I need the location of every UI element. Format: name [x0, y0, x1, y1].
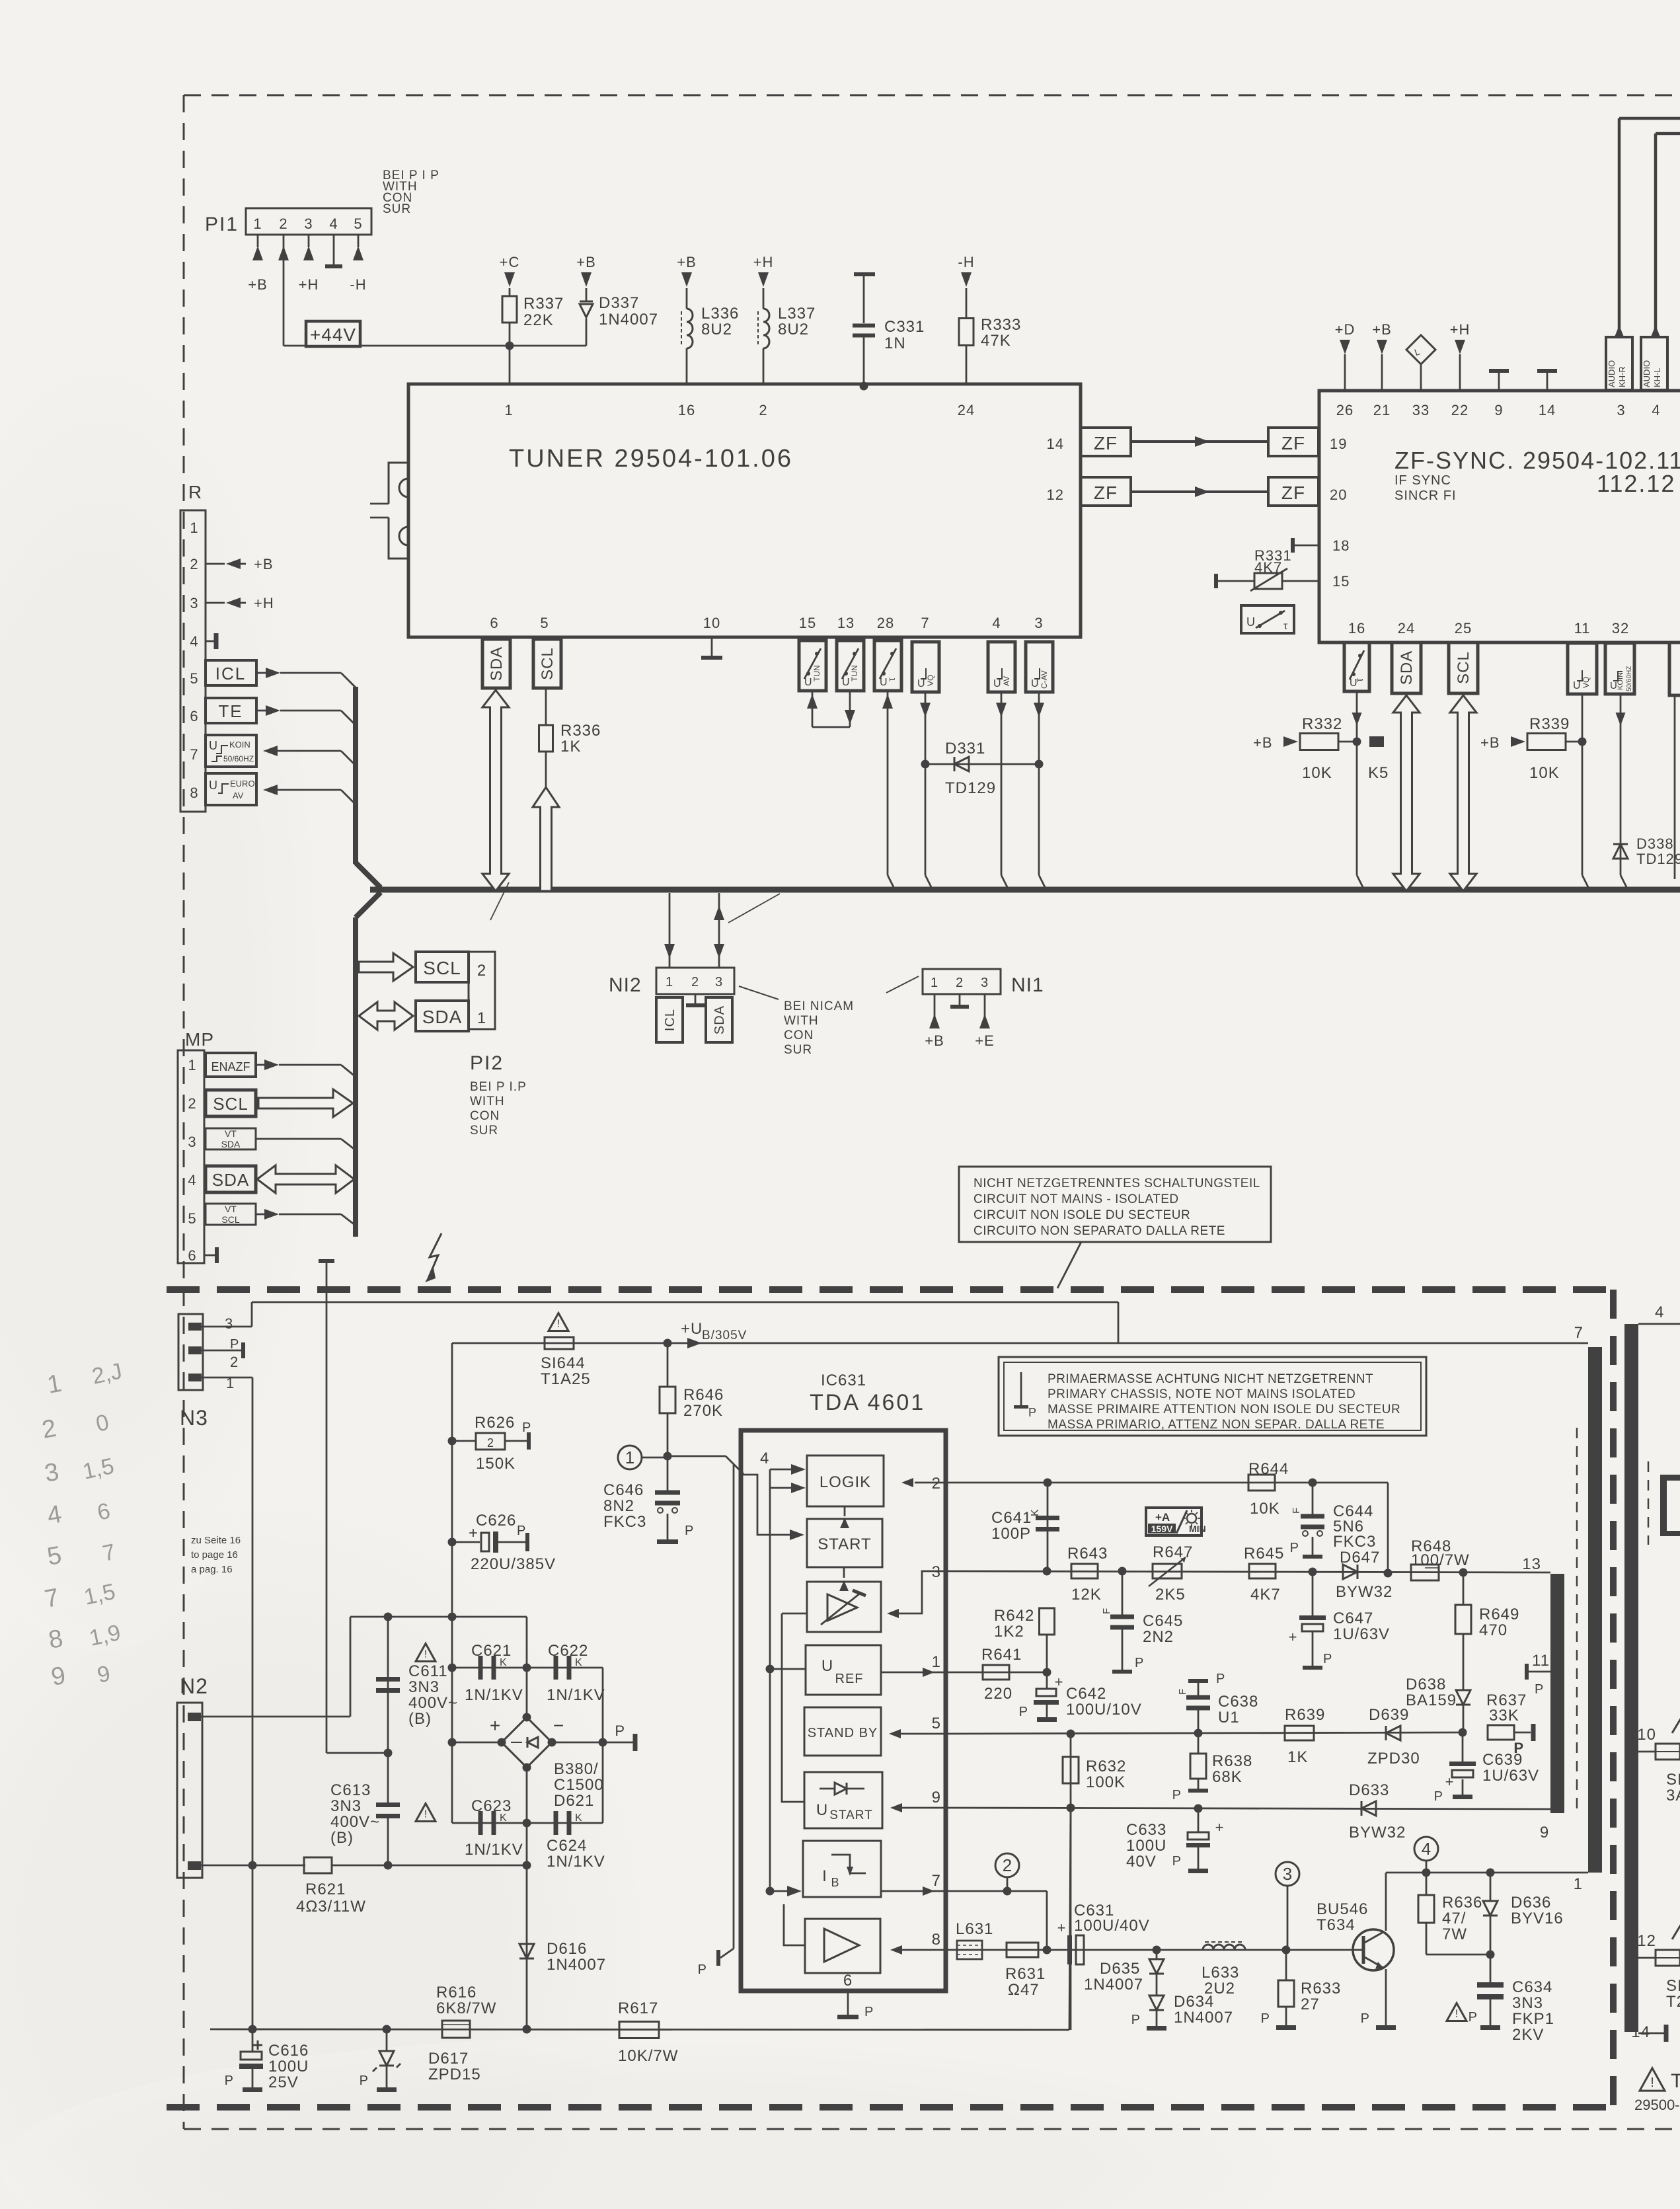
svg-text:+H: +H	[753, 254, 774, 270]
resistor R636	[1418, 1873, 1490, 1955]
svg-text:ICL: ICL	[215, 664, 246, 683]
svg-text:R617: R617	[618, 1999, 658, 2017]
svg-text:1: 1	[932, 1653, 941, 1671]
R pin3 +H	[206, 595, 274, 611]
TDA pin2	[901, 1475, 946, 1492]
signal box SDA zfsync	[1392, 642, 1421, 693]
transistor collector wire	[1385, 1873, 1387, 1931]
svg-text:NI2: NI2	[609, 974, 642, 996]
svg-text:1N4007: 1N4007	[1174, 2009, 1233, 2027]
signal box ICL	[206, 660, 256, 685]
svg-text:MP: MP	[185, 1029, 214, 1050]
ZF box tuner pin14	[1081, 428, 1131, 456]
resistor R331	[1214, 547, 1319, 591]
bus arrow to SCL PI2	[359, 953, 413, 981]
NI1 pin1 +B	[925, 994, 944, 1049]
svg-text:P: P	[522, 1420, 531, 1435]
svg-text:P: P	[1019, 1705, 1028, 1719]
svg-text:3: 3	[1034, 615, 1043, 631]
svg-text:3: 3	[190, 595, 198, 611]
svg-text:P: P	[685, 1524, 694, 1538]
svg-text:R636: R636	[1442, 1894, 1482, 1912]
svg-text:1N/1KV: 1N/1KV	[465, 1841, 523, 1859]
svg-text:T634: T634	[1317, 1916, 1355, 1934]
bus arrow SDA MP	[257, 1165, 354, 1193]
svg-text:3: 3	[225, 1315, 233, 1332]
winding pin11 stub	[1525, 1652, 1550, 1697]
isolation dashed line left	[1576, 1428, 1578, 1814]
svg-text:8: 8	[932, 1931, 941, 1949]
svg-text:B: B	[831, 1876, 839, 1889]
signal box U-EURO-AV	[206, 773, 258, 805]
svg-text:22: 22	[1451, 402, 1469, 418]
resistor R336	[539, 689, 601, 789]
signal box SDA PI2	[416, 1001, 469, 1031]
diode D331	[925, 740, 1039, 797]
svg-text:+D: +D	[1335, 321, 1355, 338]
svg-text:R639: R639	[1285, 1706, 1325, 1724]
svg-text:6: 6	[843, 1972, 853, 1990]
svg-text:1U/63V: 1U/63V	[1333, 1625, 1390, 1643]
zfsync pin18 stub	[1291, 538, 1319, 553]
svg-text:+B: +B	[248, 276, 268, 293]
svg-text:100U/10V: 100U/10V	[1066, 1701, 1142, 1719]
svg-text:14: 14	[1047, 436, 1064, 452]
svg-text:12K: 12K	[1071, 1586, 1102, 1604]
svg-text:C645: C645	[1143, 1612, 1183, 1630]
diode D634	[1131, 1974, 1233, 2031]
svg-text:a pag. 16: a pag. 16	[191, 1564, 233, 1575]
resistor R337	[500, 254, 564, 346]
winding pin14 stub	[1631, 2023, 1668, 2042]
svg-text:R646: R646	[683, 1386, 724, 1404]
signal box U-tau pin28	[874, 640, 901, 691]
svg-text:+44V: +44V	[310, 325, 356, 345]
svg-text:3: 3	[715, 975, 723, 989]
transformer winding bar 7-1	[1588, 1347, 1602, 1873]
svg-text:KH-L: KH-L	[1652, 368, 1662, 387]
svg-text:2: 2	[230, 1354, 239, 1370]
resistor R632	[1063, 1734, 1126, 2030]
svg-text:33: 33	[1412, 402, 1430, 418]
svg-text:4: 4	[329, 215, 338, 232]
TDA pin9	[890, 1789, 946, 1812]
svg-text:K: K	[500, 1657, 507, 1668]
svg-text:+B: +B	[1480, 734, 1500, 751]
bottom row wire	[210, 1808, 1069, 2034]
svg-text:WITH: WITH	[470, 1095, 505, 1108]
svg-text:10: 10	[703, 615, 720, 631]
wire pin3 to bus	[1034, 692, 1046, 890]
svg-text:3N3: 3N3	[1512, 1994, 1543, 2012]
wire ICL to bus line	[256, 668, 356, 687]
svg-text:ZPD15: ZPD15	[428, 2066, 481, 2083]
svg-text:R649: R649	[1479, 1606, 1519, 1623]
resistor R626	[448, 1414, 532, 1473]
svg-text:25: 25	[1455, 620, 1472, 637]
svg-text:3: 3	[188, 1134, 196, 1150]
capacitor C616	[225, 2029, 309, 2092]
capacitor C644	[1290, 1483, 1377, 1559]
svg-text:SINCR FI: SINCR FI	[1394, 488, 1457, 503]
svg-text:N2: N2	[180, 1674, 208, 1698]
wire N3 pin3 to supply row	[202, 1302, 1118, 1343]
svg-text:LOGIK: LOGIK	[820, 1473, 871, 1491]
svg-text:4: 4	[1652, 402, 1660, 418]
resistor R333	[958, 254, 1021, 384]
svg-text:U: U	[209, 739, 217, 752]
signal box SCL PI2	[416, 952, 469, 982]
wire bridge right to ground	[552, 1723, 638, 1751]
svg-text:D616: D616	[547, 1940, 587, 1958]
signal box SDA MP	[206, 1166, 256, 1192]
wire col530	[350, 1617, 352, 1717]
svg-text:-H: -H	[958, 254, 974, 270]
svg-text:12: 12	[1637, 1932, 1656, 1950]
wire pin28 to bus	[882, 691, 895, 890]
svg-text:P: P	[1323, 1652, 1332, 1666]
svg-text:VQ: VQ	[1582, 677, 1591, 688]
svg-text:SI: SI	[1666, 1771, 1680, 1789]
svg-text:+: +	[1445, 1773, 1454, 1790]
wire col492	[326, 1717, 388, 1753]
svg-text:SUR: SUR	[784, 1043, 812, 1057]
wire pin4 to bus	[996, 692, 1009, 890]
svg-text:C641: C641	[991, 1509, 1032, 1527]
svg-text:L336: L336	[701, 305, 739, 323]
svg-text:4: 4	[1422, 1839, 1431, 1859]
signal box SCL MP	[206, 1090, 256, 1116]
node 1 circled	[618, 1446, 672, 1469]
caption zu Seite 16	[191, 1535, 241, 1575]
svg-text:P: P	[360, 2073, 369, 2088]
svg-text:−: −	[553, 1715, 564, 1736]
wire +44V to R337 node	[360, 342, 586, 385]
svg-text:SDA: SDA	[212, 1170, 249, 1190]
resistor R645	[1244, 1545, 1284, 1604]
svg-text:5: 5	[540, 615, 549, 631]
svg-text:2: 2	[759, 402, 767, 418]
diode D338	[1613, 835, 1680, 867]
potentiometer R647	[1149, 1543, 1193, 1604]
capacitor C646	[603, 1457, 694, 1544]
svg-text:SDA: SDA	[712, 1005, 727, 1034]
svg-text:P: P	[864, 2005, 874, 2019]
winding pin12 fuse SI T2	[1637, 1926, 1680, 2011]
svg-text:U: U	[917, 678, 925, 689]
svg-text:R638: R638	[1212, 1752, 1252, 1770]
svg-text:PRIMAERMASSE ACHTUNG NICHT NE: PRIMAERMASSE ACHTUNG NICHT NETZGETRENNT	[1048, 1372, 1373, 1386]
zfsync pin26 +D	[1335, 321, 1355, 391]
svg-text:K5: K5	[1368, 764, 1389, 782]
transformer winding bar 13-9	[1550, 1574, 1564, 1813]
svg-text:C-AV: C-AV	[1040, 670, 1049, 689]
wire N2 bottom to R621	[201, 1865, 305, 1867]
svg-text:SCL: SCL	[539, 647, 556, 680]
signal box U-TUN pin15	[799, 640, 826, 691]
svg-text:D338: D338	[1636, 835, 1674, 852]
svg-text:R336: R336	[560, 722, 601, 740]
resistor R646	[660, 1339, 724, 1456]
transistor emitter ground	[1361, 1969, 1396, 2030]
svg-text:BEI NICAM: BEI NICAM	[784, 999, 854, 1013]
svg-text:L633: L633	[1202, 1964, 1239, 1982]
winding pin13 wire	[1463, 1572, 1550, 1574]
svg-text:16: 16	[678, 402, 695, 418]
svg-text:Ω47: Ω47	[1008, 1981, 1040, 1999]
NI2 pin2 ground	[686, 994, 705, 1007]
svg-text:3A: 3A	[1666, 1787, 1680, 1804]
svg-text:REF: REF	[835, 1672, 864, 1686]
connector N2	[177, 1674, 208, 1878]
svg-text:VT: VT	[225, 1128, 237, 1139]
svg-text:CIRCUIT NON ISOLE DU SECTEUR: CIRCUIT NON ISOLE DU SECTEUR	[974, 1208, 1190, 1222]
svg-text:26: 26	[1336, 402, 1354, 418]
svg-text:P: P	[1131, 2013, 1141, 2027]
svg-text:MASSE PRIMAIRE ATTENTION NON: MASSE PRIMAIRE ATTENTION NON ISOLE DU SE…	[1048, 1403, 1400, 1416]
svg-text:P: P	[615, 1723, 625, 1739]
svg-text:+A: +A	[1155, 1511, 1170, 1524]
svg-text:AUDIO: AUDIO	[1642, 360, 1652, 387]
zfsync pin14 stub	[1537, 369, 1557, 391]
mains-isolation thick dashed border	[167, 1290, 1613, 2109]
TDA block STAND BY	[804, 1707, 881, 1756]
row C626 to bridge	[350, 1613, 527, 1621]
svg-text:MASSA PRIMARIO, ATTENZ NON S: MASSA PRIMARIO, ATTENZ NON SEPAR. DALLA …	[1048, 1418, 1385, 1432]
TDA pin8	[890, 1931, 946, 1955]
svg-text:2: 2	[487, 1436, 494, 1450]
svg-text:ENAZF: ENAZF	[211, 1060, 250, 1073]
transformer winding bar 4-14	[1624, 1324, 1638, 2032]
connector N3	[178, 1314, 239, 1430]
svg-text:1N: 1N	[884, 334, 906, 352]
svg-text:BYW32: BYW32	[1349, 1824, 1406, 1841]
pin9 row wire	[946, 1804, 1550, 1813]
svg-text:400V~: 400V~	[408, 1694, 458, 1712]
wire bridge left col	[448, 1738, 502, 1747]
zfsync pin21 +B	[1372, 321, 1392, 391]
svg-text:8N2: 8N2	[603, 1497, 634, 1515]
left vertical wire col684	[448, 1343, 457, 1823]
svg-text:!: !	[424, 1809, 427, 1820]
pin1 row wire	[946, 1668, 1051, 1677]
svg-text:SDA: SDA	[1398, 650, 1416, 685]
resistor R644	[1248, 1460, 1289, 1518]
wire bus line to EURO-AV	[263, 785, 356, 804]
svg-text:4: 4	[992, 615, 1001, 631]
caption box primary chassis	[999, 1357, 1426, 1436]
svg-text:3: 3	[981, 976, 989, 990]
svg-text:D633: D633	[1349, 1781, 1389, 1799]
wire ZF link lower	[1131, 486, 1268, 497]
svg-text:18: 18	[1332, 537, 1350, 554]
zfsync left pin numbers	[1330, 436, 1350, 590]
wire node1 to IC	[668, 1456, 744, 1474]
wire pin16 to bus	[1352, 691, 1365, 890]
wire AUDIO KH-R up	[1614, 118, 1680, 338]
capacitor C641	[991, 1483, 1059, 1571]
pointer caption to border	[1057, 1242, 1081, 1288]
svg-text:CIRCUITO NON SEPARATO DALLA RE: CIRCUITO NON SEPARATO DALLA RETE	[974, 1224, 1225, 1238]
svg-text:P: P	[1434, 1789, 1443, 1804]
capacitor C633	[1126, 1808, 1223, 1873]
svg-text:U: U	[1031, 678, 1039, 689]
svg-text:IC631: IC631	[821, 1372, 866, 1389]
svg-text:BA159: BA159	[1406, 1691, 1457, 1709]
bus arrow SDA tuner	[482, 690, 509, 891]
svg-text:1K: 1K	[1287, 1748, 1308, 1766]
svg-text:47K: 47K	[981, 332, 1011, 350]
svg-text:11: 11	[1532, 1652, 1550, 1670]
svg-text:+B: +B	[576, 254, 596, 270]
svg-text:2KV: 2KV	[1512, 2026, 1544, 2044]
connector MP	[178, 1029, 214, 1263]
svg-text:R333: R333	[981, 316, 1021, 334]
svg-text:6K8/7W: 6K8/7W	[436, 1999, 496, 2017]
resistor R638	[1172, 1733, 1253, 1802]
svg-text:I: I	[822, 1867, 827, 1885]
winding pin4 wire	[1638, 1303, 1680, 1324]
zfsync pin22 +H	[1450, 321, 1470, 391]
svg-text:ZF: ZF	[1094, 483, 1118, 503]
wire pin7 to bus	[920, 692, 933, 890]
svg-text:KOIN: KOIN	[229, 740, 250, 750]
svg-text:28: 28	[877, 615, 894, 631]
signal box SCL zfsync	[1449, 642, 1478, 693]
svg-text:5: 5	[190, 670, 198, 687]
signal box U-AV pin4	[988, 642, 1015, 692]
transistor T634 BU546	[1317, 1900, 1394, 1970]
svg-text:4K7: 4K7	[1254, 559, 1282, 576]
svg-text:100K: 100K	[1086, 1773, 1126, 1791]
TDA block output amp	[805, 1919, 880, 1973]
resistor R637	[1486, 1691, 1536, 1756]
svg-text:BU546: BU546	[1317, 1900, 1368, 1918]
capacitor C613	[330, 1781, 436, 1870]
diode D636	[1483, 1873, 1564, 1959]
ZF box tuner pin12	[1081, 477, 1131, 506]
svg-text:6: 6	[190, 708, 198, 724]
TDA pin5	[889, 1715, 946, 1738]
diode D647	[1336, 1549, 1393, 1601]
node 2 circled	[995, 1853, 1019, 1891]
tuner pin10 ground	[701, 637, 722, 660]
svg-text:15: 15	[799, 615, 816, 631]
svg-text:+: +	[1057, 1919, 1066, 1936]
bus wire	[370, 887, 1680, 893]
svg-text:R641: R641	[981, 1646, 1022, 1664]
capacitor C639	[1434, 1732, 1539, 1804]
svg-text:5: 5	[188, 1210, 196, 1227]
svg-text:3: 3	[932, 1563, 941, 1581]
signal box SDA NI2	[706, 997, 732, 1042]
diode D616	[519, 1940, 606, 1974]
TDA pin1	[881, 1653, 946, 1677]
svg-text:6: 6	[188, 1247, 196, 1264]
svg-text:SCL: SCL	[423, 958, 461, 978]
svg-text:P: P	[1261, 2011, 1270, 2026]
svg-text:2K5: 2K5	[1155, 1586, 1186, 1604]
label pin7 winding	[1574, 1324, 1584, 1342]
svg-text:P: P	[225, 2073, 234, 2088]
svg-text:P: P	[1535, 1682, 1544, 1697]
svg-text:22K: 22K	[523, 311, 554, 329]
R pin numbers	[190, 520, 198, 801]
svg-text:13: 13	[1522, 1555, 1541, 1573]
svg-text:TD129: TD129	[1636, 851, 1680, 867]
supply box +44V	[306, 321, 360, 346]
signal box U-TUN pin13	[837, 640, 864, 691]
svg-text:F: F	[1291, 1508, 1302, 1514]
svg-text:τ: τ	[1283, 621, 1288, 632]
capacitor C631	[1057, 1902, 1150, 1964]
svg-text:K: K	[575, 1657, 582, 1668]
svg-text:!: !	[557, 1319, 560, 1330]
svg-text:T2: T2	[1666, 1993, 1680, 2011]
svg-text:5: 5	[354, 215, 362, 232]
svg-text:4K7: 4K7	[1250, 1586, 1281, 1604]
svg-text:1N4007: 1N4007	[1084, 1976, 1143, 1994]
svg-text:7: 7	[921, 615, 929, 631]
svg-text:+: +	[1055, 1674, 1063, 1690]
svg-text:MIN: MIN	[1189, 1524, 1206, 1534]
svg-text:1: 1	[504, 402, 513, 418]
PI1 pin stubs and arrows	[248, 235, 366, 293]
svg-text:FKP1: FKP1	[1512, 2010, 1554, 2028]
resistor R339	[1480, 715, 1582, 782]
wire bus to NI2 pin1	[664, 893, 675, 968]
svg-text:T: T	[1671, 2070, 1680, 2092]
signal box AUDIO KH-L	[1641, 337, 1667, 390]
pin2 row wire	[946, 1479, 1388, 1574]
svg-text:(B): (B)	[408, 1710, 432, 1728]
svg-text:50/60HZ: 50/60HZ	[1626, 666, 1633, 691]
capacitor C611	[376, 1617, 458, 1804]
svg-text:R642: R642	[994, 1607, 1034, 1625]
wire IC to primary ground	[698, 1465, 734, 1977]
svg-text:1: 1	[931, 976, 938, 990]
node 4 circled	[1414, 1837, 1438, 1873]
capacitor C634	[1447, 1955, 1554, 2044]
capacitor row C621 C622	[448, 1642, 605, 1704]
supply row wire	[452, 1342, 1588, 1344]
wire ZF link upper	[1131, 436, 1268, 447]
svg-text:159V: 159V	[1151, 1524, 1173, 1534]
svg-text:B/305V: B/305V	[702, 1329, 747, 1342]
svg-text:SUR: SUR	[383, 202, 411, 216]
inductor L631	[956, 1920, 993, 1959]
svg-text:C624: C624	[547, 1837, 587, 1855]
node 3 circled	[1276, 1862, 1299, 1950]
svg-text:16: 16	[1348, 620, 1365, 637]
svg-text:C633: C633	[1126, 1821, 1166, 1839]
svg-text:1K: 1K	[560, 738, 581, 756]
svg-text:zu Seite 16: zu Seite 16	[191, 1535, 241, 1546]
connector partial top right	[1660, 1475, 1680, 1536]
signal box SCL tuner pin5	[533, 639, 561, 688]
svg-text:100U: 100U	[1126, 1837, 1166, 1855]
wire TE to bus line	[256, 705, 356, 725]
svg-text:33K: 33K	[1489, 1707, 1519, 1725]
svg-text:1N/1KV: 1N/1KV	[547, 1686, 605, 1704]
inductor L337	[753, 254, 816, 384]
svg-text:1: 1	[1574, 1875, 1583, 1893]
svg-text:1: 1	[253, 215, 262, 232]
svg-text:4: 4	[1655, 1303, 1664, 1321]
svg-text:FKC3: FKC3	[1333, 1533, 1376, 1551]
svg-text:4: 4	[190, 633, 198, 650]
svg-text:U: U	[816, 1801, 828, 1819]
